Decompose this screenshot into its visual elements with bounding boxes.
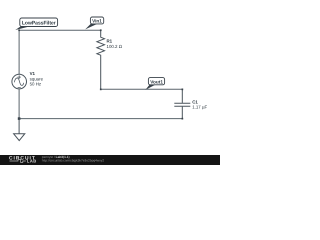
- svg-text:LowPassFilter: LowPassFilter: [22, 21, 56, 27]
- capacitor C1: [174, 89, 190, 118]
- svg-text:http://circuitlab.com/c6qjk3k7: http://circuitlab.com/c6qjk3k7e3o2bpq4wx…: [42, 159, 105, 163]
- net flag LowPassFilter: [15, 18, 57, 30]
- voltage source V1: [12, 74, 27, 89]
- wire: V1 bottom to junction: [18, 89, 20, 119]
- svg-text:Vout1: Vout1: [150, 79, 163, 84]
- svg-text:LAB: LAB: [27, 159, 37, 164]
- svg-text:100.2 Ω: 100.2 Ω: [107, 44, 123, 49]
- wire: bottom horizontal: [19, 118, 182, 120]
- footer bar: [0, 155, 220, 165]
- svg-text:50 Hz: 50 Hz: [30, 81, 41, 86]
- node junction dot: [18, 117, 21, 120]
- net flag Vin1: [85, 17, 104, 29]
- footer text: [42, 155, 105, 162]
- wire: top horizontal from V1 top corner to R1 top: [19, 29, 101, 31]
- corner darkening blobs: [18, 29, 183, 119]
- footer logo CIRCUIT LAB: [9, 155, 37, 163]
- R1 value label: [107, 39, 123, 49]
- C1 value label: [192, 99, 207, 109]
- svg-text:1.17 µF: 1.17 µF: [192, 105, 207, 110]
- net flag Vout1: [145, 78, 164, 90]
- resistor R1: [97, 30, 105, 89]
- ground: [14, 119, 25, 141]
- label V1 value text: [30, 71, 44, 86]
- wire: left vertical from top corner down to V1: [18, 30, 20, 74]
- svg-text:Vin1: Vin1: [92, 19, 102, 24]
- wire: Vout horizontal from R1 bottom to C1: [101, 88, 183, 90]
